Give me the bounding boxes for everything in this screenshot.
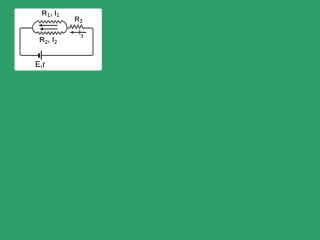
lens top branch left curve [32,22,36,28]
lens bottom branch left curve [32,28,36,33]
battery cell negative plate (short thick) [38,53,40,57]
current arrow I1 [38,24,57,27]
lens top branch right curve [64,22,68,28]
svg-text:E,r: E,r [35,60,45,69]
white panel [15,9,102,71]
current arrow I3 [70,31,87,34]
resistor R1 [37,21,64,24]
current arrow I2 [39,28,57,31]
resistor R3 [70,25,84,29]
resistor R2 [37,32,64,34]
wire left: lens left tip to left side down to battery [20,28,38,55]
lens bottom branch right curve [64,28,68,33]
wire right: battery to right side up to R3 right end [41,28,93,55]
wire node A: lens right tip to R3 left end [67,27,70,29]
background [0,0,120,85]
battery cell positive plate (long thin) [40,51,42,60]
